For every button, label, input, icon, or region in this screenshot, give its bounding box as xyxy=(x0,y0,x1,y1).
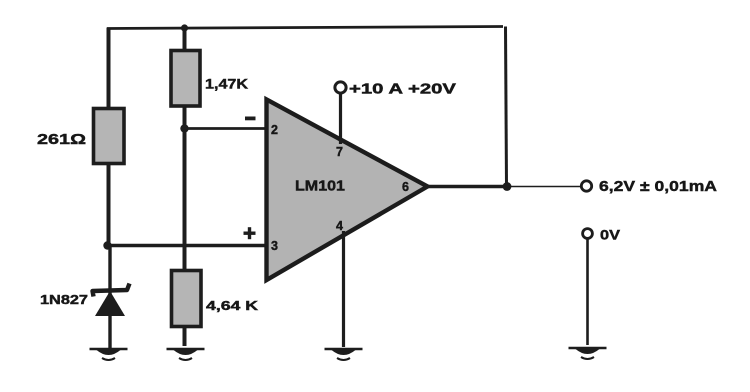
terminal output xyxy=(581,181,591,191)
svg-text:+10 A +20V: +10 A +20V xyxy=(349,82,456,98)
ground (pin 4) xyxy=(325,349,363,360)
wire: common node horizontal (to pin 3) xyxy=(106,244,266,248)
wire: pin 7 to V+ terminal xyxy=(339,93,342,144)
ground (0V terminal) xyxy=(569,348,607,359)
op-amp U1 LM101 triangle xyxy=(267,100,428,281)
resistor R1 261 ohm body xyxy=(94,109,125,164)
ground (divider branch) xyxy=(167,349,205,360)
junction dot at top rail xyxy=(181,24,188,31)
wire: feedback vertical xyxy=(506,27,507,187)
wire: middle branch vertical (divider) xyxy=(183,27,187,347)
svg-text:1N827: 1N827 xyxy=(40,292,88,307)
junction dot output node xyxy=(503,182,512,191)
svg-text:4: 4 xyxy=(336,219,343,233)
svg-text:LM101: LM101 xyxy=(295,179,345,195)
svg-text:6,2V ± 0,01mA: 6,2V ± 0,01mA xyxy=(599,179,718,195)
ground (zener branch) xyxy=(90,349,128,360)
svg-text:7: 7 xyxy=(336,145,343,159)
wire: output from pin 6 xyxy=(426,185,508,188)
wire: output thin extension to terminal xyxy=(508,186,581,188)
wire: to inverting input pin 2 xyxy=(184,127,266,130)
terminal V+ xyxy=(335,82,346,93)
svg-text:3: 3 xyxy=(271,239,278,253)
svg-text:2: 2 xyxy=(271,123,278,137)
terminal 0V xyxy=(583,229,593,239)
junction dot inverting node xyxy=(180,124,188,132)
wire: zener branch vertical xyxy=(108,246,111,349)
resistor R3 4,64K body xyxy=(172,271,202,327)
svg-text:0V: 0V xyxy=(600,228,620,243)
wire: left vertical branch (261 ohm branch) xyxy=(107,28,111,247)
resistor R2 1,47K body xyxy=(171,51,200,107)
svg-text:261Ω: 261Ω xyxy=(37,131,86,148)
svg-text:6: 6 xyxy=(402,180,409,194)
wire: 0V to ground xyxy=(586,239,589,346)
junction node A dot xyxy=(103,241,111,249)
wire: top feedback rail xyxy=(107,27,503,29)
svg-text:4,64 K: 4,64 K xyxy=(206,298,259,313)
svg-text:1,47K: 1,47K xyxy=(205,76,248,92)
minus sign at inverting input xyxy=(245,117,256,121)
wire: pin 4 to ground xyxy=(342,231,345,347)
zener diode D1 1N827 xyxy=(93,284,130,317)
plus sign at non-inverting input xyxy=(244,227,256,239)
